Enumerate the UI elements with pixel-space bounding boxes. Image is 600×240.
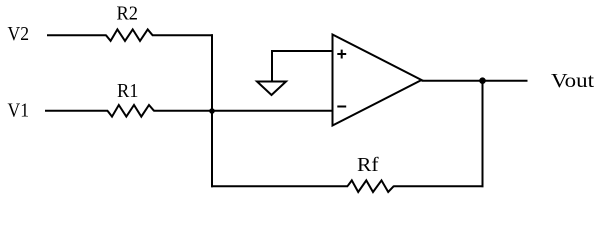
- op-amp minus input marker: [337, 106, 346, 108]
- svg-text:R1: R1: [117, 80, 139, 102]
- wire ground drop: [271, 50, 273, 82]
- junction node A: [209, 108, 215, 114]
- svg-text:Rf: Rf: [357, 154, 379, 176]
- wire output to feedback: [482, 81, 484, 188]
- resistor R1: [108, 105, 155, 117]
- wire op-amp output: [422, 80, 528, 82]
- resistor R2: [106, 29, 153, 41]
- wire V1 to R1: [45, 110, 108, 112]
- wire feedback left: [211, 185, 348, 187]
- svg-text:Vout: Vout: [551, 70, 595, 92]
- op-amp U1: [333, 35, 422, 126]
- wire R1 to inverting input: [154, 110, 333, 112]
- svg-text:V1: V1: [8, 100, 30, 122]
- wire node A vertical: [211, 34, 213, 187]
- op-amp plus input marker: [337, 50, 346, 59]
- resistor Rf: [348, 180, 394, 192]
- wire ground to non-inverting input: [271, 50, 333, 52]
- wire V2 to R2: [47, 34, 107, 36]
- svg-text:V2: V2: [8, 23, 30, 45]
- ground: [257, 82, 286, 96]
- wire R2 to node A: [152, 34, 213, 36]
- junction output node: [479, 77, 486, 84]
- svg-text:R2: R2: [117, 2, 139, 24]
- wire feedback right: [393, 185, 483, 187]
